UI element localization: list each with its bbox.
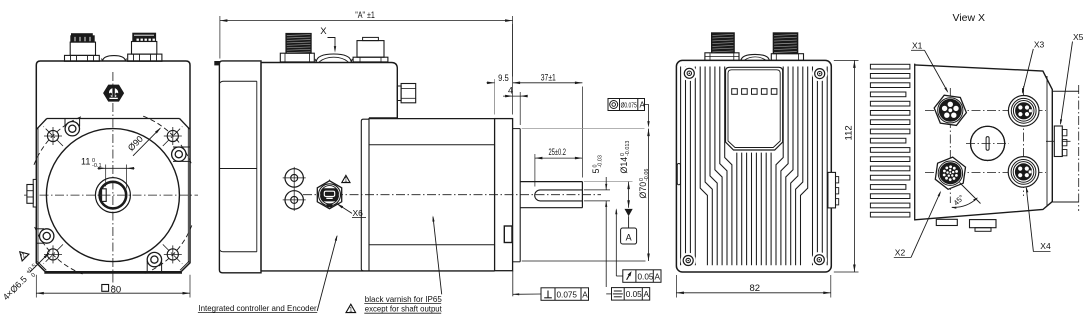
svg-text:0.05: 0.05 xyxy=(626,290,642,299)
svg-text:-0.1: -0.1 xyxy=(92,163,102,169)
LEDs xyxy=(732,89,738,95)
view X xyxy=(870,12,1083,258)
X5 connector (view X) xyxy=(1054,126,1062,157)
side connector bump (right edge) xyxy=(828,172,836,208)
central feature xyxy=(971,126,1005,160)
svg-text:Ø70: Ø70 xyxy=(638,182,648,199)
motor rear plate xyxy=(361,119,369,271)
hex vent plug xyxy=(104,85,124,101)
svg-text:A: A xyxy=(640,101,646,110)
svg-text:Integrated controller and Enco: Integrated controller and Encoder xyxy=(198,303,316,313)
body outline xyxy=(915,65,1053,220)
centerlines xyxy=(112,72,114,287)
svg-text:A: A xyxy=(644,290,650,299)
runout frame xyxy=(623,270,661,283)
connector M12 right (front view) xyxy=(128,54,162,61)
heatsink comb xyxy=(914,64,916,221)
spigot xyxy=(519,129,521,262)
svg-text:X: X xyxy=(320,26,327,37)
svg-text:-0.013: -0.013 xyxy=(625,141,631,156)
dome (rear view) xyxy=(741,54,769,60)
svg-text:37±1: 37±1 xyxy=(541,73,556,83)
flange plate xyxy=(495,119,513,271)
svg-text:9.5: 9.5 xyxy=(498,73,509,83)
4 housing screws with recesses xyxy=(64,119,66,127)
datum A xyxy=(625,209,633,216)
svg-text:80: 80 xyxy=(111,284,122,295)
label 4x dia6.5 xyxy=(1,262,43,304)
rear view xyxy=(676,33,858,298)
dim 9.5 xyxy=(494,79,496,115)
dia14 dim xyxy=(584,181,633,183)
dome (side view) xyxy=(316,54,351,62)
svg-text:112: 112 xyxy=(844,125,855,140)
svg-text:5: 5 xyxy=(591,169,601,174)
shaft xyxy=(520,181,582,183)
svg-text:82: 82 xyxy=(750,283,761,294)
svg-text:A: A xyxy=(626,232,632,242)
flange lines right xyxy=(1052,90,1078,92)
svg-text:45°: 45° xyxy=(952,193,966,207)
dim 82 xyxy=(675,275,677,298)
flange side edges xyxy=(37,128,39,263)
svg-text:0.075: 0.075 xyxy=(557,290,578,299)
svg-text:-0.03: -0.03 xyxy=(598,155,604,167)
X6 label xyxy=(337,204,352,214)
svg-text:1: 1 xyxy=(349,306,353,313)
top connectors (rear view) xyxy=(705,53,739,61)
dim 25 xyxy=(534,154,536,187)
svg-text:11: 11 xyxy=(81,157,90,167)
heatsink fins xyxy=(681,67,828,266)
dome between connectors xyxy=(103,56,126,61)
bottom edge bumps xyxy=(936,219,957,225)
svg-text:X5: X5 xyxy=(1073,32,1084,42)
note triangle 1 (at X6) xyxy=(342,175,350,182)
central panel xyxy=(726,67,783,150)
connector X1 xyxy=(934,95,966,125)
bolt circle arcs (dashed) xyxy=(143,225,192,274)
dia 90 label xyxy=(133,128,160,156)
symmetry frame xyxy=(612,288,650,301)
corner screws xyxy=(682,66,697,81)
svg-text:View X: View X xyxy=(953,12,986,24)
shaft centerline xyxy=(303,194,601,196)
heatsink cover (side profile) xyxy=(219,61,261,273)
svg-text:except for shaft output: except for shaft output xyxy=(365,304,443,314)
dim 37 xyxy=(581,87,583,178)
dim 5 keyway xyxy=(584,189,610,191)
keyway slot xyxy=(535,190,583,201)
note triangle 2 xyxy=(16,248,29,261)
svg-text:X6: X6 xyxy=(353,208,364,218)
X5 on housing right edge xyxy=(397,86,401,101)
connector X3 xyxy=(1008,96,1039,127)
svg-text:A: A xyxy=(655,272,661,281)
connector X2 xyxy=(935,157,965,189)
svg-text:"A" ±1: "A" ±1 xyxy=(355,10,375,20)
connector M12 left (front view) xyxy=(65,55,100,61)
4 mounting holes xyxy=(47,130,58,141)
top connectors (side view) xyxy=(280,53,314,62)
svg-text:Ø14: Ø14 xyxy=(619,157,629,174)
X5 connector on left edge (front view) xyxy=(33,179,36,207)
clip on flange xyxy=(504,226,512,243)
perpendicularity frame xyxy=(541,288,589,301)
svg-text:-0.06: -0.06 xyxy=(644,169,650,181)
svg-text:X4: X4 xyxy=(1040,241,1051,251)
dim 112 xyxy=(834,59,859,61)
dim square-80 xyxy=(35,275,37,298)
main circle xyxy=(46,129,179,262)
svg-text:A: A xyxy=(582,290,588,299)
centerlines xyxy=(925,109,1046,111)
connector X4 xyxy=(1008,157,1039,188)
side view xyxy=(198,10,661,314)
left edge vent slot xyxy=(677,164,680,185)
svg-text:Ø90: Ø90 xyxy=(126,134,145,153)
X6 connector xyxy=(285,169,303,187)
svg-text:X2: X2 xyxy=(895,247,906,257)
dim 4 xyxy=(519,92,521,125)
keyway xyxy=(102,189,107,202)
svg-text:4×Ø6.5: 4×Ø6.5 xyxy=(1,274,29,302)
motor body xyxy=(369,118,495,120)
svg-text:Ø0.075: Ø0.075 xyxy=(621,100,637,109)
45 deg xyxy=(960,183,981,204)
dim 11 xyxy=(105,165,107,187)
svg-text:4: 4 xyxy=(508,85,513,95)
box connector (side view) xyxy=(353,57,388,62)
svg-text:X1: X1 xyxy=(912,41,923,51)
shaft hub xyxy=(95,178,130,213)
concentricity frame xyxy=(608,99,645,111)
front view xyxy=(1,33,198,304)
svg-text:0.05: 0.05 xyxy=(638,272,654,281)
dim A+-1 xyxy=(219,16,221,59)
svg-text:X3: X3 xyxy=(1034,40,1045,50)
housing body xyxy=(261,63,397,118)
dia70 dim xyxy=(522,128,645,130)
leader notes xyxy=(317,236,337,311)
svg-text:1: 1 xyxy=(344,177,348,184)
svg-text:25±0.2: 25±0.2 xyxy=(549,147,567,157)
